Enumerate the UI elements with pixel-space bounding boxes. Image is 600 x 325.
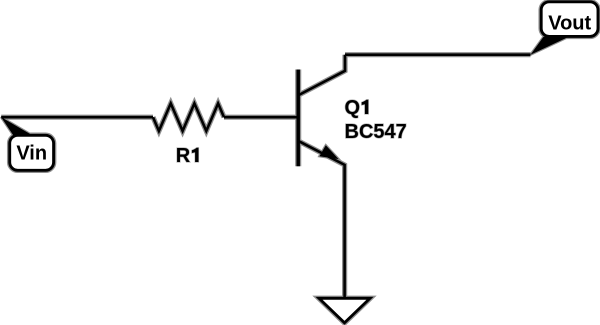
svg-text:Vout: Vout — [548, 12, 591, 34]
svg-text:BC547: BC547 — [345, 121, 407, 143]
svg-text:Vin: Vin — [16, 142, 47, 164]
transistor Q1 base bar — [296, 70, 300, 167]
node Vout flag box — [541, 2, 598, 37]
wire base input — [1, 116, 153, 119]
wire collector output — [345, 53, 531, 56]
wire resistor to base — [224, 116, 297, 119]
ground — [319, 298, 370, 323]
transistor Q1 collector lead — [299, 55, 345, 95]
node Vin flag tail — [1, 117, 31, 136]
resistor R1 — [153, 103, 224, 131]
node Vin flag box — [10, 135, 54, 170]
transistor Q1 emitter lead — [299, 141, 345, 299]
transistor Q1 emitter arrow — [319, 145, 338, 159]
svg-text:R: R — [176, 145, 191, 167]
node Vout flag tail — [531, 37, 568, 55]
svg-text:Q: Q — [345, 97, 361, 119]
